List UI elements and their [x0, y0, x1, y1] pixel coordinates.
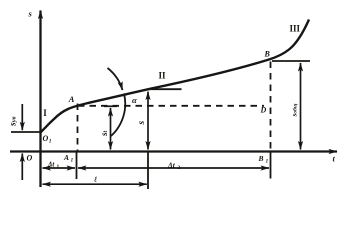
- extension line below axis at tangent point: [147, 152, 149, 190]
- svg-text:А: А: [63, 153, 69, 162]
- svg-text:2: 2: [178, 165, 181, 171]
- svg-text:1: 1: [57, 164, 60, 170]
- left tick at O1 level: [11, 131, 40, 133]
- svg-text:st: st: [99, 130, 109, 137]
- short dimension arrow s2 (dashed line to axis): [110, 108, 112, 150]
- svg-text:sобщ: sобщ: [290, 103, 299, 117]
- svg-text:Δt: Δt: [167, 161, 176, 170]
- svg-text:O: O: [43, 134, 49, 143]
- tangent point horizontal tick: [148, 88, 181, 90]
- dashed horizontal line A-D: [78, 105, 264, 107]
- svg-text:ℓ: ℓ: [94, 175, 98, 184]
- right dimension arrow s_obsh (B level to axis): [300, 63, 302, 150]
- t axis (horizontal): [10, 150, 337, 152]
- svg-text:sув: sув: [9, 116, 19, 127]
- creep curve stages I-II-III: [40, 20, 309, 134]
- B1 extension line below axis: [270, 152, 272, 179]
- svg-text:α: α: [132, 95, 137, 105]
- tall dimension arrow s (tangent point to axis): [147, 92, 149, 150]
- A1 extension line below axis: [76, 152, 78, 180]
- svg-text:1: 1: [266, 159, 269, 165]
- dimension row A line (delta t1 + delta t2): [43, 167, 270, 169]
- angle alpha arc arrow: [108, 68, 123, 90]
- svg-text:t: t: [333, 154, 336, 164]
- tick at top of short dimension arrow: [104, 105, 117, 107]
- svg-text:Δt: Δt: [47, 161, 55, 169]
- dimension row B line (l): [43, 183, 147, 185]
- svg-text:1: 1: [49, 139, 52, 145]
- svg-text:II: II: [159, 71, 167, 81]
- right horizontal tick at B level: [272, 60, 310, 62]
- svg-text:I: I: [43, 108, 47, 118]
- svg-text:В: В: [258, 154, 264, 163]
- svg-text:s: s: [28, 9, 33, 19]
- svg-text:A: A: [68, 94, 75, 104]
- svg-text:1: 1: [71, 158, 74, 164]
- svg-text:s: s: [137, 121, 147, 126]
- left dimension arrow s_uv (between O1 level and t axis): [21, 104, 23, 180]
- svg-text:O: O: [27, 154, 33, 163]
- dashed vertical from A to t axis: [77, 104, 79, 152]
- s axis (vertical): [39, 11, 41, 188]
- svg-text:D: D: [260, 106, 267, 115]
- svg-text:III: III: [290, 24, 301, 34]
- svg-text:B: B: [264, 50, 271, 59]
- dashed vertical from B to t axis: [270, 62, 272, 152]
